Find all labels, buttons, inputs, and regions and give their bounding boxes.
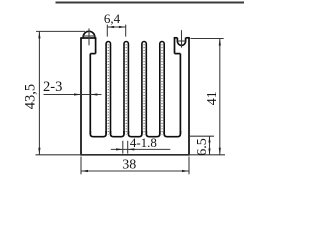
- dim 4-1.8 leader: [111, 148, 171, 150]
- dome boss arc on left wall: [83, 31, 95, 38]
- dim 41 line: [219, 39, 221, 155]
- label 2-3 leader: [44, 94, 102, 96]
- arrow 43.5 up: [38, 31, 40, 38]
- gap 3 bottom: [128, 131, 142, 137]
- right wall outer edge: [188, 38, 190, 156]
- svg-text:4-1.8: 4-1.8: [130, 135, 157, 150]
- right wall inner edge: [179, 54, 181, 134]
- fin 1 outline: [106, 42, 110, 135]
- dim 4-1.8 extension left tick: [122, 141, 124, 154]
- arrow 43.5 down: [38, 148, 40, 155]
- dome centerline vertical: [88, 28, 90, 45]
- fin 4 hatch: [161, 45, 163, 135]
- left wall shoulder top: [80, 37, 95, 39]
- base bottom edge: [81, 154, 189, 156]
- gap 2 bottom: [111, 131, 125, 137]
- bottom extension line long: [36, 154, 226, 156]
- dim 41 top extension: [191, 38, 224, 40]
- arrow 4-1.8 right: [116, 148, 123, 150]
- arrow 6.4 right: [119, 26, 126, 28]
- fin 3 outline: [142, 41, 146, 134]
- table border line top: [56, 2, 245, 4]
- fin 3 hatch: [143, 45, 145, 135]
- svg-text:6.5: 6.5: [195, 138, 210, 156]
- arrow 4-1.8 left: [128, 148, 135, 150]
- dim 6.5 top extension: [190, 135, 214, 137]
- dim 6.5 line: [209, 136, 211, 155]
- svg-text:41: 41: [205, 91, 220, 105]
- channel centerline vertical: [181, 30, 183, 47]
- gap 4 bottom: [146, 131, 160, 137]
- right wall step: [175, 53, 181, 55]
- arrow 6.5 up: [208, 136, 210, 142]
- dim 4-1.8 extension right tick: [127, 141, 129, 154]
- arrow 38 left: [81, 170, 88, 172]
- right wall left lip top: [174, 37, 178, 39]
- left wall outer edge: [80, 38, 82, 156]
- dim 6.4 extension right: [125, 25, 127, 37]
- arrow 41 down: [219, 148, 221, 155]
- fin 4 outline: [160, 42, 164, 135]
- svg-text:6,4: 6,4: [104, 11, 121, 26]
- arrow 41 up: [219, 39, 221, 46]
- dim 38 line: [81, 170, 189, 172]
- dim 43.5 top extension: [36, 30, 85, 32]
- svg-text:43,5: 43,5: [22, 84, 38, 109]
- svg-text:38: 38: [122, 158, 136, 173]
- arrow 2-3 right: [74, 93, 81, 95]
- fin 2 outline: [124, 42, 128, 134]
- arrow 6.4 left: [107, 26, 114, 28]
- screw channel U profile: [177, 38, 185, 46]
- arrow 38 right: [182, 170, 189, 172]
- gap 1 bottom: [90, 131, 106, 137]
- dim 43.5 line: [38, 31, 40, 154]
- left wall inner edge: [89, 54, 91, 134]
- dim 6.4 extension left: [106, 25, 108, 37]
- dim 38 extension right: [188, 157, 190, 175]
- right wall right lip top: [186, 37, 190, 39]
- gap 5 bottom: [164, 131, 180, 137]
- svg-text:2-3: 2-3: [43, 79, 62, 95]
- arrow 6.5 down: [208, 149, 210, 155]
- dome centerline horizontal: [83, 35, 95, 37]
- fin 1 hatch: [107, 45, 109, 135]
- dim 38 extension left: [80, 157, 82, 175]
- channel centerline horizontal: [178, 40, 186, 42]
- left wall wide right edge: [95, 37, 97, 53]
- fin 2 hatch: [125, 45, 127, 135]
- left wall step: [90, 53, 95, 55]
- dim 6.4 line: [107, 26, 125, 28]
- right wall wide left edge: [174, 38, 176, 54]
- arrow 2-3 left: [90, 93, 97, 95]
